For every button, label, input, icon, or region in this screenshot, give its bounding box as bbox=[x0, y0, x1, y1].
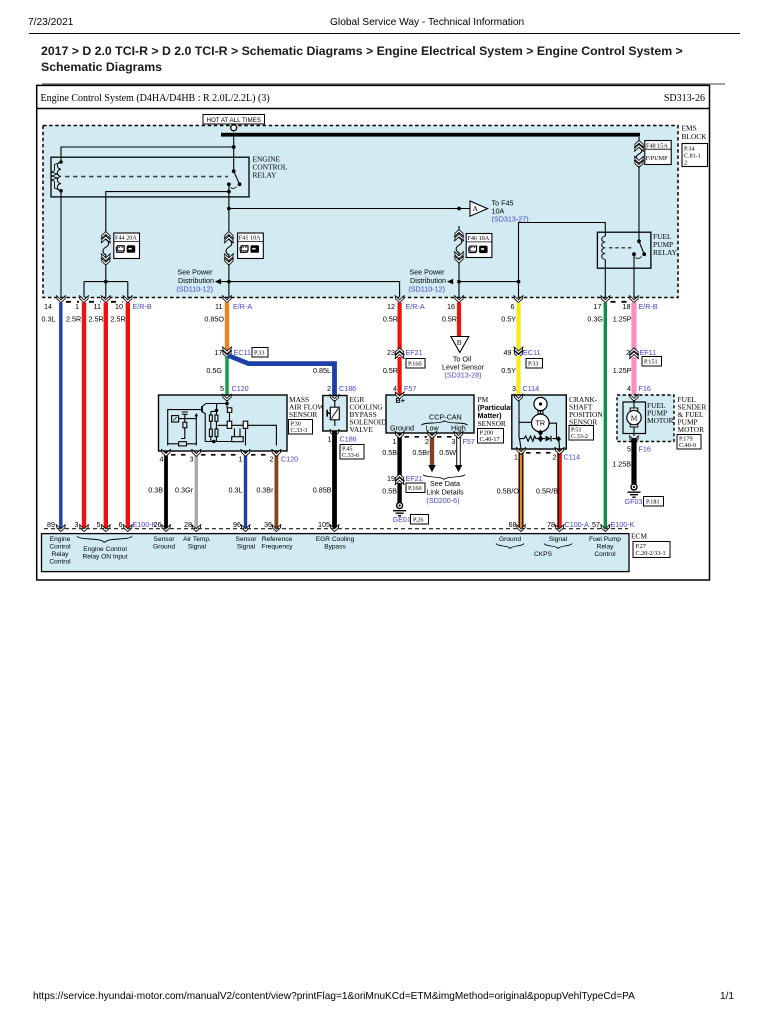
svg-text:(SD110-12): (SD110-12) bbox=[408, 285, 445, 294]
MAF internal circuit bbox=[168, 400, 277, 446]
connector EC11 on orange/green wire bbox=[215, 347, 251, 358]
svg-text:1.25B: 1.25B bbox=[612, 460, 631, 469]
PM title bbox=[478, 395, 517, 428]
svg-text:C.33-2: C.33-2 bbox=[571, 433, 588, 440]
svg-text:0.5R: 0.5R bbox=[383, 315, 398, 324]
ECM connector dashed line bbox=[44, 528, 628, 530]
wire: relay switch output down bbox=[228, 184, 230, 228]
ECM pin 96 label bbox=[233, 520, 241, 529]
header rule bbox=[29, 33, 740, 34]
ECM label air temp signal bbox=[183, 536, 211, 551]
connector dashes between pins 14-1-11-10 bbox=[66, 301, 123, 303]
footer page number bbox=[720, 991, 734, 1002]
wire 0.3G green pin17 to ECM 57 bbox=[587, 303, 605, 530]
fuel pump motor M1 bbox=[623, 400, 646, 436]
connector E/R-B label bbox=[133, 302, 152, 311]
wire: F44 split rail bbox=[84, 264, 128, 297]
svg-text:EF21: EF21 bbox=[406, 348, 423, 357]
ECM pin 89 label bbox=[47, 520, 55, 529]
title divider bbox=[37, 108, 710, 110]
connector dashes between pins 17-18 bbox=[611, 301, 630, 303]
svg-text:C186: C186 bbox=[340, 435, 357, 444]
svg-text:SD313-26: SD313-26 bbox=[664, 93, 705, 104]
connector E100-K right label bbox=[611, 520, 635, 529]
svg-text:1: 1 bbox=[328, 435, 332, 444]
svg-text:0.3B: 0.3B bbox=[148, 486, 163, 495]
svg-text:P.33: P.33 bbox=[254, 350, 265, 357]
FPM exit chevron pin 5 bbox=[629, 436, 639, 443]
svg-text:P.34: P.34 bbox=[684, 146, 695, 153]
CKPS exit chevrons pins 1 2 bbox=[516, 447, 565, 454]
pin exit chevrons on EMS block bottom bbox=[56, 295, 639, 302]
svg-text:High: High bbox=[451, 424, 466, 433]
header date bbox=[28, 17, 73, 28]
node: junction at F46 top bbox=[457, 207, 461, 211]
node: junction bus/coil branch bbox=[232, 145, 236, 149]
svg-text:68: 68 bbox=[509, 520, 517, 529]
wire 0.85L blue EC11 branch to EGR C186 bbox=[228, 355, 335, 395]
svg-text:Air Temp.: Air Temp. bbox=[183, 536, 211, 543]
svg-text:B: B bbox=[457, 338, 462, 347]
PM exit chevrons pins 1 2 3 bbox=[395, 431, 464, 438]
svg-text:P.160: P.160 bbox=[408, 361, 422, 368]
wire 0.5Br brown PM2 CAN low bbox=[412, 434, 432, 466]
EMS block dashed box (hot area) bbox=[43, 126, 678, 298]
ECM pin 28 label bbox=[184, 520, 192, 529]
ECM pin 5 label bbox=[97, 520, 101, 529]
svg-text:CKPS: CKPS bbox=[534, 551, 553, 558]
label: To F45 10A SD313-27 bbox=[492, 199, 529, 224]
HOT AT ALL TIMES label bbox=[203, 115, 265, 125]
wire 0.3Br brown MAF2 to ECM 36 bbox=[256, 452, 276, 530]
svg-text:1: 1 bbox=[514, 453, 518, 462]
pin 18 E/R-B label bbox=[623, 302, 658, 311]
svg-text:F48 15A: F48 15A bbox=[646, 142, 668, 149]
bus bar (hot at all times feed) bbox=[221, 133, 640, 137]
ground GE01 bbox=[393, 503, 406, 516]
svg-text:E/R-B: E/R-B bbox=[133, 302, 152, 311]
ECM pin 105 label bbox=[318, 520, 330, 529]
wire: relay coil bottom to pin 14 bbox=[60, 191, 62, 297]
ECM label EGR cooling bypass bbox=[316, 536, 355, 551]
fuse F48 15A bbox=[634, 137, 644, 167]
svg-text:1: 1 bbox=[75, 302, 79, 311]
svg-text:C120: C120 bbox=[281, 455, 298, 464]
svg-text:Sensor: Sensor bbox=[236, 536, 258, 543]
EGR entry chevron bbox=[330, 394, 340, 401]
CKPS entry chevron bbox=[514, 394, 524, 401]
svg-text:F57: F57 bbox=[404, 384, 416, 393]
svg-text:Ground: Ground bbox=[499, 536, 521, 543]
svg-text:P.27: P.27 bbox=[636, 543, 647, 550]
svg-text:P.33: P.33 bbox=[528, 361, 539, 368]
node: junction F41 rail bbox=[227, 280, 231, 284]
svg-text:16: 16 bbox=[447, 302, 455, 311]
footer url bbox=[33, 991, 635, 1002]
wire 0.5R/B red-black CKPS2 to ECM 78 bbox=[536, 450, 559, 530]
svg-text:2: 2 bbox=[626, 348, 630, 357]
svg-text:0.5W: 0.5W bbox=[439, 448, 456, 457]
svg-text:10: 10 bbox=[115, 302, 123, 311]
svg-text:Relay: Relay bbox=[52, 551, 70, 558]
fuel pump relay K2 coil bbox=[602, 236, 606, 259]
svg-text:RELAY: RELAY bbox=[253, 171, 278, 180]
fuse F48 label box bbox=[645, 141, 671, 165]
wire 0.5Y yellow EC11 to CKPS C114 bbox=[501, 356, 518, 395]
wire 0.3B black MAF4 to ECM 26 bbox=[148, 452, 166, 530]
pin 14 label bbox=[44, 302, 52, 311]
svg-text:1.25P: 1.25P bbox=[613, 315, 632, 324]
svg-text:P.26: P.26 bbox=[413, 517, 424, 524]
PM ref box P.200 C.40-17 bbox=[478, 429, 504, 444]
node: bus tap circle bbox=[231, 125, 237, 131]
svg-text:Relay ON Input: Relay ON Input bbox=[82, 554, 127, 561]
svg-text:P.151: P.151 bbox=[644, 359, 658, 366]
svg-text:1.25P: 1.25P bbox=[613, 366, 632, 375]
brace under CAN arrows bbox=[423, 475, 465, 480]
FPM pin 5 F16 label bbox=[627, 445, 651, 454]
svg-text:5: 5 bbox=[97, 520, 101, 529]
diagram outer frame bbox=[37, 85, 710, 580]
svg-text:78: 78 bbox=[547, 520, 555, 529]
svg-text:4: 4 bbox=[627, 384, 631, 393]
see power distribution left arrow bbox=[176, 268, 221, 294]
CAN low arrowhead bbox=[428, 465, 436, 472]
ECM name label bbox=[631, 532, 647, 541]
title text right SD313-26 bbox=[664, 93, 705, 104]
svg-text:2.5R: 2.5R bbox=[111, 315, 126, 324]
C114 connector dashes bbox=[526, 452, 554, 454]
fuel sender title bbox=[678, 395, 707, 434]
svg-text:Signal: Signal bbox=[549, 536, 568, 543]
svg-text:Signal: Signal bbox=[237, 544, 256, 551]
svg-text:F46 10A: F46 10A bbox=[467, 235, 489, 242]
pin 17 label bbox=[594, 302, 602, 311]
fuel sender and fuel pump motor dashed box bbox=[617, 395, 674, 442]
engine control relay label bbox=[253, 155, 288, 180]
triangle A to F45 bbox=[470, 201, 488, 216]
relay coil-switch dashed link bbox=[65, 176, 228, 178]
svg-text:Sensor: Sensor bbox=[154, 536, 176, 543]
EMS BLOCK label bbox=[682, 124, 708, 142]
wire: branch to relay coil top bbox=[61, 147, 234, 161]
svg-text:0.5Y: 0.5Y bbox=[501, 315, 516, 324]
CKPS pin labels 1 2 C114 bbox=[514, 453, 580, 462]
svg-text:11: 11 bbox=[215, 302, 222, 311]
ECM label engine control relay ON input bbox=[82, 546, 127, 561]
svg-text:Ground: Ground bbox=[390, 424, 414, 433]
wire 0.5Y yellow pin6 to EC11 bbox=[501, 303, 518, 351]
title text left bbox=[41, 93, 270, 104]
svg-text:Frequency: Frequency bbox=[261, 544, 293, 551]
svg-text:F44 20A: F44 20A bbox=[115, 235, 137, 242]
svg-text:3: 3 bbox=[190, 455, 194, 464]
wire 0.5G green EC11 to MAF C120 bbox=[206, 356, 227, 395]
svg-text:(SD313-28): (SD313-28) bbox=[444, 371, 481, 380]
ref box P.160 second bbox=[406, 483, 425, 493]
F57 connector dashes bbox=[405, 436, 454, 438]
svg-text:F/PUMP: F/PUMP bbox=[646, 155, 669, 162]
wire 0.85B black EGR1 to ECM 105 bbox=[313, 432, 335, 530]
label To Oil Level Sensor SD313-28 bbox=[442, 355, 485, 380]
label 4 F57 at PM entry bbox=[393, 384, 416, 393]
svg-text:Fuel Pump: Fuel Pump bbox=[589, 536, 621, 543]
svg-text:C.33-6: C.33-6 bbox=[342, 452, 359, 459]
CAN high arrowhead bbox=[455, 465, 463, 472]
ground GE01 label and ref box P.26 bbox=[393, 515, 429, 525]
ECM ref box P.27 C.20-2/33-1 bbox=[633, 542, 670, 558]
MAF exit chevrons pins 4 3 1 2 bbox=[161, 449, 281, 456]
svg-text:57: 57 bbox=[592, 520, 600, 529]
connector EC11 on yellow wire bbox=[504, 347, 541, 358]
fuse F46 10A bbox=[454, 226, 464, 263]
svg-text:19: 19 bbox=[387, 474, 395, 483]
MAF ref box P.30 C.33-3 bbox=[289, 420, 313, 435]
svg-text:3: 3 bbox=[75, 520, 79, 529]
svg-text:2: 2 bbox=[270, 455, 274, 464]
svg-text:P.181: P.181 bbox=[646, 499, 660, 506]
svg-text:GE01: GE01 bbox=[393, 515, 411, 524]
svg-text:F16: F16 bbox=[639, 384, 651, 393]
svg-text:GF03: GF03 bbox=[625, 497, 643, 506]
svg-text:0.5R: 0.5R bbox=[442, 315, 457, 324]
svg-text:TR: TR bbox=[536, 419, 546, 428]
wire: junction down to pin 6 bbox=[518, 282, 520, 297]
wire 0.5R red pin16 to oil level sensor bbox=[442, 303, 459, 338]
wire 0.3L blue MAF1 to ECM 96 bbox=[229, 452, 246, 530]
ECM pin 26 label bbox=[154, 520, 162, 529]
breadcrumb bbox=[41, 43, 731, 75]
svg-text:28: 28 bbox=[184, 520, 192, 529]
ECM box bbox=[42, 534, 630, 572]
svg-text:0.5B/O: 0.5B/O bbox=[497, 487, 520, 496]
label 5 C120 at MAF entry bbox=[220, 384, 249, 393]
svg-text:SENSOR: SENSOR bbox=[289, 410, 317, 419]
svg-text:0.5R/B: 0.5R/B bbox=[536, 487, 558, 496]
EGR exit chevron pin 1 bbox=[330, 429, 340, 436]
svg-text:0.3L: 0.3L bbox=[229, 486, 243, 495]
ground GF03 label and ref box P.181 bbox=[625, 497, 664, 507]
svg-text:F16: F16 bbox=[639, 445, 651, 454]
svg-text:EF11: EF11 bbox=[640, 348, 657, 357]
relay K1 switch bbox=[227, 169, 242, 188]
svg-text:C100-A: C100-A bbox=[565, 520, 590, 529]
ECM label signal CKPS bbox=[544, 536, 572, 549]
MAF title bbox=[289, 395, 325, 419]
ECM label fuel pump relay control bbox=[589, 536, 621, 558]
fuel pump relay box bbox=[597, 232, 651, 268]
svg-text:HOT AT ALL TIMES: HOT AT ALL TIMES bbox=[207, 117, 261, 124]
svg-text:12: 12 bbox=[387, 302, 395, 311]
svg-text:Ground: Ground bbox=[153, 544, 175, 551]
svg-text:Signal: Signal bbox=[188, 544, 207, 551]
svg-text:0.3G: 0.3G bbox=[587, 315, 603, 324]
wire: FP relay switch to pin 18 bbox=[633, 254, 635, 297]
svg-text:0.85B: 0.85B bbox=[313, 486, 332, 495]
ECM label sensor ground bbox=[153, 536, 175, 551]
connector EF11 on pink wire bbox=[626, 348, 656, 359]
ref box P.160 bbox=[406, 359, 425, 369]
wire: relay output to F46 and triangle A bbox=[229, 208, 470, 210]
see power distribution right arrow bbox=[408, 268, 453, 294]
svg-text:0.5B: 0.5B bbox=[382, 487, 397, 496]
svg-text:2: 2 bbox=[684, 160, 687, 167]
crankshaft position sensor box bbox=[512, 395, 567, 449]
svg-text:EC11: EC11 bbox=[234, 348, 251, 357]
node: junction yellow feed bbox=[517, 280, 521, 284]
svg-text:C.40-9: C.40-9 bbox=[679, 442, 696, 449]
ECM label sensor signal bbox=[236, 536, 258, 551]
fuse F44 20A bbox=[101, 228, 111, 265]
svg-text:CCP-CAN: CCP-CAN bbox=[429, 413, 462, 422]
wire: F48 to fuel pump relay switch bbox=[638, 166, 640, 241]
svg-text:ECM: ECM bbox=[631, 532, 647, 541]
PM particulate matter sensor box bbox=[386, 395, 474, 433]
fuel pump relay label bbox=[653, 232, 678, 257]
FPM entry chevron bbox=[629, 394, 639, 401]
FPM inner title bbox=[647, 401, 674, 425]
svg-text:Bypass: Bypass bbox=[324, 544, 346, 551]
wire 0.5B black PM1 to EF21 bbox=[382, 434, 399, 477]
svg-text:11: 11 bbox=[94, 302, 101, 311]
wire 2.5R red pin1 to ECM 3 bbox=[66, 303, 84, 530]
connector E100-K label bbox=[133, 520, 157, 529]
pin 16 label bbox=[447, 302, 455, 311]
wire 0.5W white PM3 CAN high bbox=[439, 434, 458, 466]
svg-text:E/R-A: E/R-A bbox=[233, 302, 252, 311]
svg-text:MOTOR: MOTOR bbox=[647, 416, 674, 425]
ECM label reference frequency bbox=[261, 536, 293, 551]
svg-text:BLOCK: BLOCK bbox=[682, 132, 708, 141]
svg-text:36: 36 bbox=[264, 520, 272, 529]
wire: FP relay coil bottom to pin 17 bbox=[604, 260, 606, 298]
svg-text:C114: C114 bbox=[523, 384, 540, 393]
wire 0.3Gr gray MAF3 to ECM 28 bbox=[175, 452, 196, 530]
fuse F41 label box bbox=[238, 233, 264, 259]
svg-text:17: 17 bbox=[594, 302, 602, 311]
svg-text:F41 10A: F41 10A bbox=[239, 235, 261, 242]
svg-text:6: 6 bbox=[511, 302, 515, 311]
hairline above title box bbox=[42, 83, 725, 85]
svg-text:18: 18 bbox=[623, 302, 631, 311]
svg-text:SENSOR: SENSOR bbox=[478, 419, 506, 428]
svg-text:105: 105 bbox=[318, 520, 330, 529]
ref box P.151 bbox=[642, 357, 662, 367]
svg-text:Engine: Engine bbox=[50, 536, 71, 543]
svg-text:Engine Control: Engine Control bbox=[83, 546, 127, 553]
svg-text:0.5R: 0.5R bbox=[383, 366, 398, 375]
ECM row entry chevrons bbox=[56, 524, 611, 531]
EGR cooling bypass solenoid valve box bbox=[323, 396, 347, 432]
wire 0.3L blue pin14 to ECM 89 bbox=[42, 303, 61, 530]
pin 12 E/R-A label bbox=[387, 302, 425, 311]
wire: F41 down to pin 11 and right rail to pin 12 bbox=[217, 264, 400, 297]
node: junction switch to right feed bbox=[227, 207, 231, 211]
wire 0.5B black EF21 to ground GE01 bbox=[382, 483, 399, 503]
svg-text:0.85L: 0.85L bbox=[313, 366, 331, 375]
label See Data Link Details SD200-6 bbox=[426, 479, 464, 505]
FPM ref box P.179 C.40-9 bbox=[677, 435, 701, 450]
svg-text:1: 1 bbox=[393, 437, 397, 446]
svg-text:P.160: P.160 bbox=[408, 485, 422, 492]
wire 1.25P pink pin18 to EF11 bbox=[613, 303, 634, 352]
engine control relay box bbox=[51, 157, 249, 197]
fuse F44 label box bbox=[114, 233, 140, 259]
svg-text:2: 2 bbox=[327, 384, 331, 393]
svg-text:0.85O: 0.85O bbox=[204, 315, 224, 324]
PM sensor internal labels bbox=[390, 396, 468, 432]
svg-text:5: 5 bbox=[220, 384, 224, 393]
svg-text:B+: B+ bbox=[396, 396, 405, 405]
svg-text:(SD110-12): (SD110-12) bbox=[176, 285, 213, 294]
svg-text:26: 26 bbox=[154, 520, 162, 529]
svg-text:49: 49 bbox=[504, 348, 512, 357]
connector EF21 on PM ground wire bbox=[387, 474, 423, 485]
svg-text:89: 89 bbox=[47, 520, 55, 529]
svg-text:0.5B: 0.5B bbox=[382, 448, 397, 457]
MAF entry chevron bbox=[222, 394, 232, 401]
svg-text:VALVE: VALVE bbox=[350, 425, 374, 434]
C120 connector dashes bbox=[171, 454, 271, 456]
relay K1 coil bbox=[52, 160, 63, 192]
svg-text:3: 3 bbox=[512, 384, 516, 393]
svg-text:C.33-3: C.33-3 bbox=[291, 427, 308, 434]
svg-text:2.5R: 2.5R bbox=[66, 315, 81, 324]
ECM pin 3 label bbox=[75, 520, 79, 529]
svg-text:A: A bbox=[473, 204, 479, 213]
EGR title bbox=[350, 395, 388, 434]
pin 11 label bbox=[94, 302, 101, 311]
fuel pump relay K2 switch bbox=[632, 239, 646, 258]
label 2 C186 at EGR entry bbox=[327, 384, 356, 393]
svg-text:C114: C114 bbox=[564, 453, 581, 462]
svg-text:0.5Y: 0.5Y bbox=[501, 366, 516, 375]
wire 0.85O orange pin11 to EC11 bbox=[204, 303, 227, 351]
CKPS title bbox=[569, 395, 603, 427]
EGR pin 1 C186 label bbox=[328, 435, 357, 444]
connector C100-A label bbox=[565, 520, 590, 529]
PM entry chevron bbox=[395, 392, 405, 399]
wire 2.5R red pin10 to ECM 6 bbox=[111, 303, 128, 530]
EGR solenoid symbol bbox=[327, 400, 339, 426]
svg-text:E/R-A: E/R-A bbox=[406, 302, 425, 311]
wire: F46 down to pin 16 bbox=[458, 262, 460, 297]
connector EF21 on red wire bbox=[387, 348, 423, 359]
svg-text:C.20-2/33-1: C.20-2/33-1 bbox=[636, 550, 666, 557]
node: junction to second relay contact feed bbox=[227, 190, 231, 194]
triangle B to oil level sensor bbox=[451, 337, 469, 353]
pin 1 label bbox=[75, 302, 79, 311]
label 4 F16 at fuel pump motor entry bbox=[627, 384, 651, 393]
svg-text:F57: F57 bbox=[463, 437, 475, 446]
svg-text:Relay: Relay bbox=[597, 544, 615, 551]
ref box P.33 second bbox=[526, 359, 543, 369]
fuel pump relay dashed link bbox=[609, 247, 632, 249]
svg-text:4: 4 bbox=[160, 455, 164, 464]
svg-text:EGR Cooling: EGR Cooling bbox=[316, 536, 355, 543]
node: junction F46 rail bbox=[457, 280, 461, 284]
CKPS ref box P.51 C.33-2 bbox=[569, 426, 594, 441]
fuse F46 label box bbox=[466, 234, 492, 258]
pin 10 label bbox=[115, 302, 123, 311]
pin 6 label bbox=[511, 302, 515, 311]
fuse F41 10A bbox=[224, 228, 234, 265]
wire 1.25B black FPM to ground GF03 bbox=[612, 438, 634, 484]
svg-text:C186: C186 bbox=[339, 384, 356, 393]
ground GF03 bbox=[628, 484, 641, 497]
node: junction F44 rail bbox=[104, 280, 108, 284]
ECM pin 78 label bbox=[547, 520, 555, 529]
